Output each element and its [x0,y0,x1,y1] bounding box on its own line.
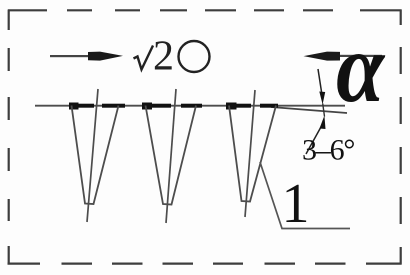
svg-text:2: 2 [153,34,174,80]
roughness circle [179,41,210,72]
tooth 3 center line [245,90,255,217]
tooth 2 thick top dash left [150,104,171,108]
tooth 3 corner blob [226,103,237,110]
svg-text:1: 1 [282,173,310,235]
svg-text:3–6°: 3–6° [302,134,354,167]
tooth 3 thick top dash left [235,104,251,108]
tooth 2 corner blob [142,103,152,110]
main tooth top line [35,105,345,107]
tooth 1 thick top dash left [76,104,94,108]
tooth 2 center line [166,89,176,223]
left arrow (points right) [50,52,123,61]
tooth 2 outline [146,106,197,205]
leader line for label 1 [260,162,350,229]
surface roughness symbol: radical sign [134,46,154,70]
tooth 2 thick top dash right [181,104,202,108]
tooth 1 center line [87,89,98,222]
tooth 3 outline [229,106,276,202]
down arrowhead touching horizontal line [319,92,325,105]
tooth 3 thick top dash right [260,104,278,108]
tooth 1 outline [72,106,119,205]
tooth 1 corner blob [69,103,79,110]
right arrow (points left) [304,52,383,61]
angle dimension line upper with down arrow [318,69,322,95]
up arrowhead touching inclined line [320,116,326,130]
inclined reference line (3-6 degrees) [271,107,347,113]
tooth 1 thick top dash right [102,104,125,108]
leader from 3-6 text with up arrowhead [306,126,322,154]
svg-text:α: α [336,14,385,124]
